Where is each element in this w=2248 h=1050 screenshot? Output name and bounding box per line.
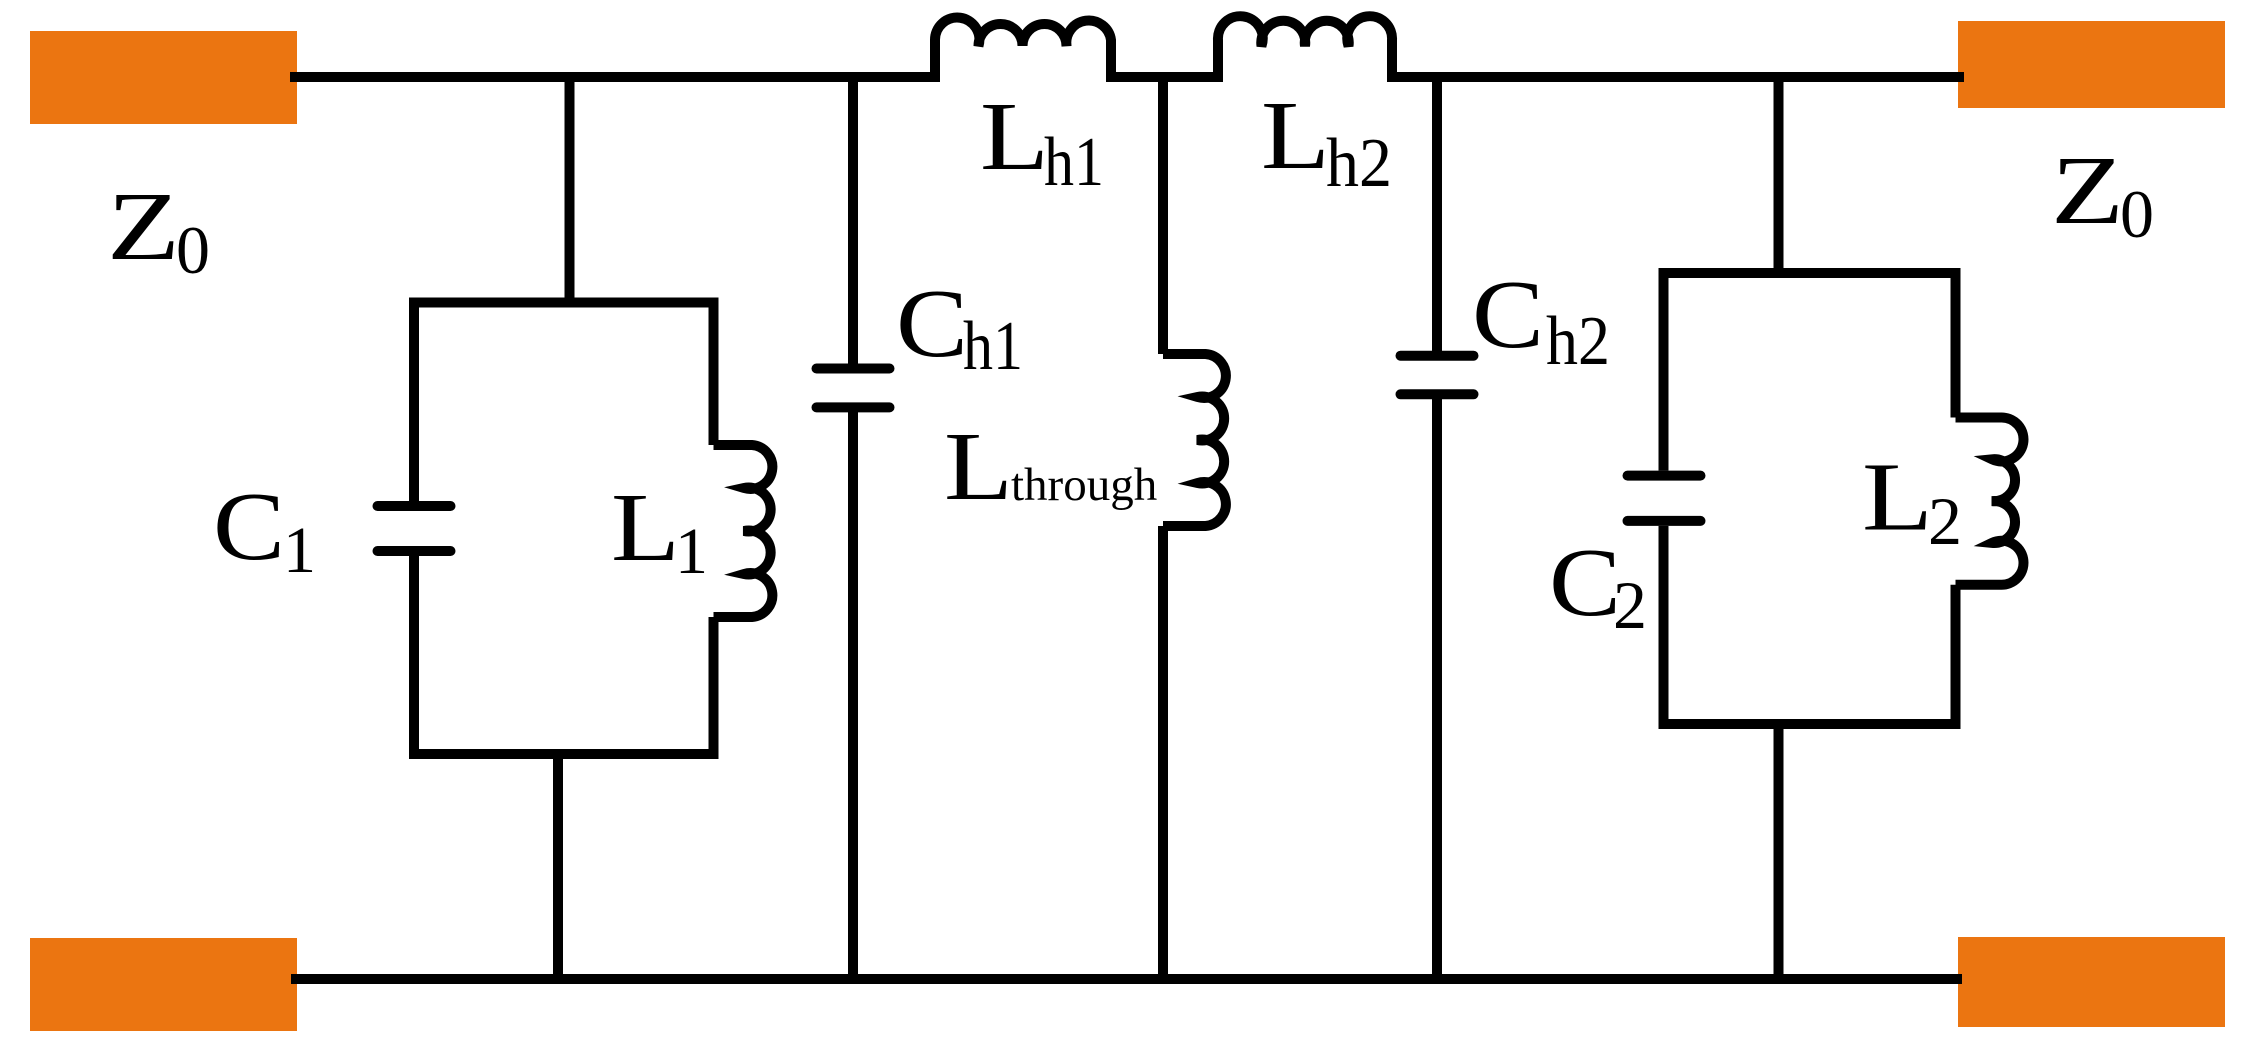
svg-text:Z: Z [2051,137,2124,245]
wire bottom bus [291,974,1962,984]
svg-text:1: 1 [283,514,316,587]
wire stub C1-L1 block bottom to bus [553,754,563,979]
svg-text:0: 0 [2120,176,2154,252]
wire C2-L2 block left edge upper [1659,273,1669,471]
wire stub Ch1 upper [848,77,858,364]
wire stub Ch2 upper [1432,77,1442,351]
wire top bus left segment [290,72,935,82]
wire C1-L1 block top edge [409,298,719,308]
svg-text:0: 0 [176,212,210,288]
svg-text:L: L [611,474,680,582]
wire C1-L1 block right edge upper [709,303,719,446]
port pad bottom-right [1958,937,2225,1027]
wire stub to C1-L1 block top [565,77,575,303]
inductor L2 [1956,417,2024,584]
svg-text:L: L [1862,444,1933,552]
svg-text:1: 1 [675,515,708,588]
port pad top-left [30,31,297,124]
capacitor C2 [1628,476,1701,521]
wire top bus middle segment [1111,72,1218,82]
capacitor C1 [378,506,451,551]
inductor Lh2 [1218,16,1392,82]
svg-text:h2: h2 [1326,125,1392,202]
wire C1-L1 block left edge lower [409,556,419,754]
capacitor Ch1 [817,369,890,408]
svg-text:L: L [944,413,1013,521]
wire C2-L2 block bottom edge [1659,719,1961,729]
svg-text:h1: h1 [1044,124,1104,201]
svg-text:h1: h1 [963,308,1023,385]
svg-text:2: 2 [1613,567,1647,643]
svg-text:C: C [213,473,285,581]
wire stub Ch1 lower to bus [848,407,858,979]
svg-text:L: L [1261,82,1330,190]
wire stub Lthrough lower to bus [1158,526,1168,979]
wire stub C2-L2 block bottom to bus [1774,724,1784,979]
port pad bottom-left [30,938,297,1031]
inductor Lh1 [935,18,1111,82]
svg-text:through: through [1011,459,1157,511]
svg-text:h2: h2 [1546,303,1610,380]
port pad top-right [1958,21,2225,108]
wire stub Ch2 lower to bus [1432,394,1442,979]
svg-text:C: C [896,270,968,378]
wire stub to C2-L2 block top [1774,77,1784,273]
wire C2-L2 block top edge [1659,268,1961,278]
wire C2-L2 block right edge upper [1951,273,1961,418]
wire C1-L1 block bottom edge [409,749,719,759]
inductor Lthrough [1163,354,1226,526]
svg-text:C: C [1472,261,1544,369]
wire stub Lthrough upper [1158,77,1168,354]
svg-text:2: 2 [1928,483,1962,559]
capacitor Ch2 [1401,356,1474,395]
wire C2-L2 block right edge lower [1951,585,1961,724]
wire C1-L1 block right edge lower [709,617,719,754]
inductor L1 [714,445,773,617]
svg-text:C: C [1549,529,1621,637]
wire C2-L2 block left edge lower [1659,526,1669,724]
svg-text:L: L [980,83,1049,191]
wire C1-L1 block left edge upper [409,303,419,502]
wire top bus right segment [1392,72,1964,82]
svg-text:Z: Z [107,173,180,281]
